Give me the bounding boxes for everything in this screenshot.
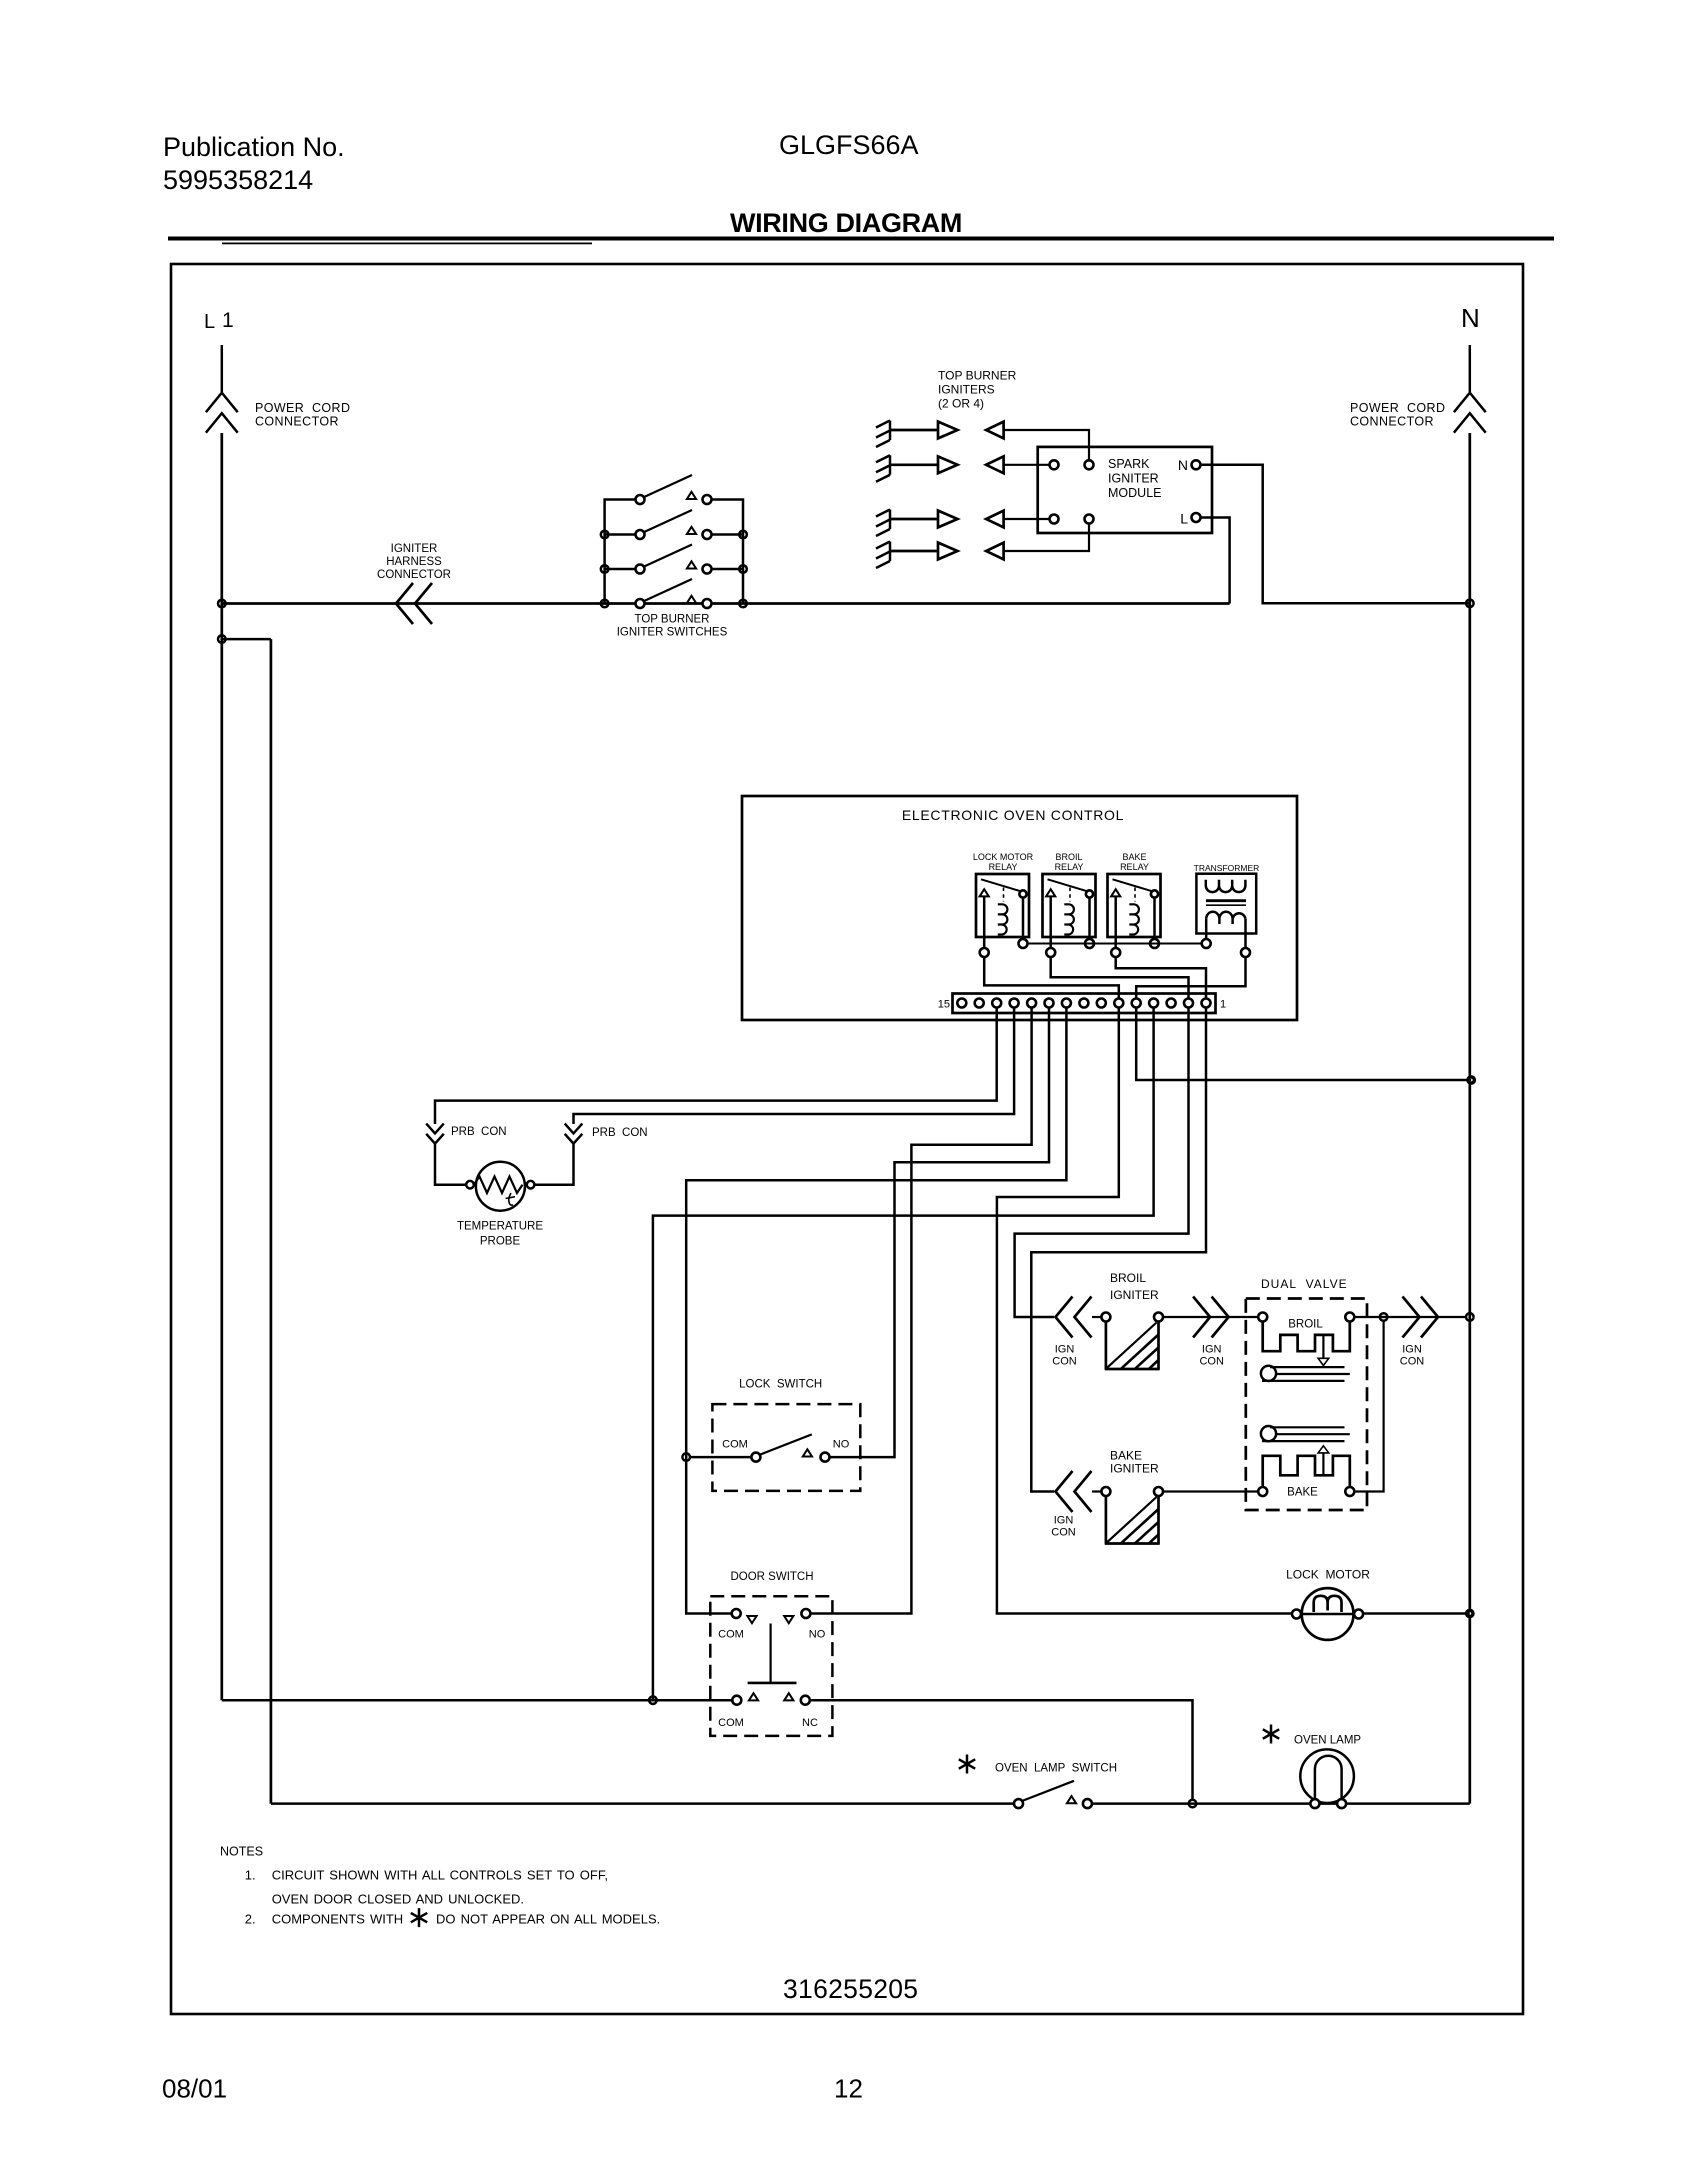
connector IGN CON bake left <box>1056 1471 1092 1512</box>
wire pin4 to door switch COM row <box>653 1008 1154 1701</box>
connector IGN CON broil mid (double chevron right) <box>1193 1297 1229 1338</box>
connector PRB CON right <box>565 1124 583 1144</box>
svg-text:CONNECTOR: CONNECTOR <box>377 569 451 581</box>
wire igniter row4 to module <box>1004 524 1089 552</box>
svg-text:COM: COM <box>718 1629 744 1641</box>
wire broil valve to IGN CON <box>1354 1316 1466 1318</box>
svg-text:PROBE: PROBE <box>480 1236 521 1248</box>
wire N vertical rail <box>1468 433 1471 1804</box>
wire lamp row right <box>1092 1802 1470 1805</box>
svg-text:NOTES: NOTES <box>220 1845 263 1859</box>
spark igniter module U1 box <box>1038 447 1212 533</box>
wire switch bank left bus <box>605 500 640 604</box>
temperature probe RT1 <box>466 1162 534 1211</box>
terminal strip P1 <box>938 994 1226 1014</box>
svg-text:CON: CON <box>1400 1356 1425 1368</box>
diagram border frame <box>171 264 1523 2014</box>
svg-text:COMPONENTS WITH: COMPONENTS WITH <box>272 1912 404 1927</box>
svg-text:OVEN DOOR CLOSED AND UNLOCKED.: OVEN DOOR CLOSED AND UNLOCKED. <box>272 1891 524 1906</box>
junction bus right row3 <box>739 565 747 573</box>
asterisk (oven lamp) <box>1263 1725 1279 1744</box>
valve solenoid BROIL <box>1258 1313 1354 1382</box>
wire transformer to pin 5 <box>1136 957 1245 998</box>
asterisk (note 2) <box>411 1908 427 1927</box>
svg-text:(2 OR 4): (2 OR 4) <box>938 397 984 411</box>
junction L1 / lamp branch <box>218 635 226 643</box>
svg-text:RELAY: RELAY <box>989 862 1018 872</box>
bake valve winding <box>1263 1456 1350 1487</box>
connector IGN CON broil left <box>1056 1297 1092 1338</box>
wire relay contact bus <box>1028 943 1202 945</box>
module terminal pins left <box>1050 460 1059 469</box>
transformer secondary coil <box>1206 912 1245 924</box>
wire lock motor to N rail <box>1363 1612 1470 1615</box>
module terminal pin N <box>1192 460 1201 469</box>
igniter electrode row3 <box>876 510 1049 537</box>
wire pin6 to lock motor <box>997 1008 1292 1614</box>
door switch S6 box (dashed) <box>710 1596 832 1736</box>
junction bus left row3 <box>601 565 609 573</box>
svg-text:1: 1 <box>1220 999 1226 1011</box>
wire probe left lead <box>435 1144 466 1185</box>
wire L1 vertical rail <box>220 433 223 1700</box>
switch S2 top burner igniter switch row2 <box>636 510 712 539</box>
bake igniter E2 (hot surface igniter) <box>1101 1487 1163 1544</box>
igniter electrode row1 <box>876 421 1089 461</box>
svg-text:NO: NO <box>833 1439 850 1451</box>
oven lamp switch S7 <box>1014 1781 1092 1808</box>
terminal circles 15..1 <box>957 999 966 1008</box>
svg-text:BROIL: BROIL <box>1110 1271 1146 1285</box>
asterisk (lamp switch) <box>959 1755 975 1774</box>
title rule artifact <box>222 243 592 245</box>
svg-text:DO NOT APPEAR ON ALL MODELS.: DO NOT APPEAR ON ALL MODELS. <box>436 1912 660 1927</box>
junction pin4 wire / COM row <box>649 1696 657 1704</box>
junction lock switch COM branch <box>682 1453 690 1461</box>
wire door switch NC to lamp row <box>810 1700 1193 1799</box>
svg-text:CON: CON <box>1052 1356 1077 1368</box>
dual valve box (dashed) <box>1246 1299 1367 1511</box>
junction bus left row2 <box>601 531 609 539</box>
wire pin12 to probe connector right <box>574 1008 1015 1125</box>
svg-text:L: L <box>204 311 215 333</box>
power cord connector N (double chevron) <box>1454 393 1486 433</box>
wire lock switch COM lead <box>690 1456 751 1459</box>
wire pin10 to lock switch NO <box>830 1008 1050 1458</box>
svg-text:RELAY: RELAY <box>1120 862 1149 872</box>
svg-text:IGN: IGN <box>1202 1344 1222 1356</box>
svg-text:NO: NO <box>809 1629 826 1641</box>
svg-text:BAKE: BAKE <box>1122 852 1146 862</box>
junction bus left row4 <box>601 600 609 608</box>
junction NC wire / lamp row <box>1189 1800 1197 1808</box>
svg-text:BROIL: BROIL <box>1055 852 1082 862</box>
wire row2 stubs <box>605 533 636 536</box>
svg-text:BROIL: BROIL <box>1288 1319 1323 1331</box>
wire igniter row1 to module <box>1004 430 1089 460</box>
wire pin13 to probe connector left <box>435 1008 997 1125</box>
valve solenoid BAKE <box>1258 1426 1354 1499</box>
junction N / EOC pin 5 wire <box>1467 1076 1476 1085</box>
door switch actuator <box>769 1624 771 1683</box>
switch S4 top burner igniter switch row4 <box>636 579 712 608</box>
wire bake igniter to valve <box>1163 1490 1258 1492</box>
svg-text:LOCK MOTOR: LOCK MOTOR <box>1286 1568 1370 1582</box>
svg-text:CONNECTOR: CONNECTOR <box>255 415 339 429</box>
junction bus right row2 <box>739 531 747 539</box>
svg-text:LOCK SWITCH: LOCK SWITCH <box>739 1379 822 1391</box>
wire broil relay coil to pin 2 <box>1051 957 1189 998</box>
door switch lower pole <box>732 1693 810 1704</box>
svg-text:IGNITER: IGNITER <box>1108 472 1159 486</box>
wire L terminal riser <box>1201 518 1230 604</box>
wire valve right pins vertical <box>1354 1321 1383 1492</box>
connector PRB CON left <box>426 1124 444 1144</box>
junction N / igniter connector wire <box>1466 1313 1474 1321</box>
wire igniter row2 to module <box>1004 464 1049 466</box>
svg-text:12: 12 <box>834 2074 863 2104</box>
svg-text:COM: COM <box>718 1717 744 1729</box>
svg-text:RELAY: RELAY <box>1055 862 1084 872</box>
svg-text:CON: CON <box>1199 1356 1224 1368</box>
bake valve arrow <box>1322 1453 1324 1475</box>
junction L1 / main wire <box>218 600 226 608</box>
lock motor M1 <box>1292 1588 1363 1640</box>
svg-text:TRANSFORMER: TRANSFORMER <box>1194 863 1260 873</box>
transformer T1 <box>1194 863 1260 957</box>
relay K1 lock motor relay <box>973 852 1034 957</box>
wire L1 lead above connector <box>221 345 224 392</box>
wire bake igniter left stub <box>1092 1490 1101 1492</box>
svg-text:316255205: 316255205 <box>783 1974 918 2004</box>
wire lamp branch horizontal <box>222 638 271 641</box>
switch S3 top burner igniter switch row3 <box>636 545 712 574</box>
probe resistor zigzag <box>474 1177 523 1194</box>
transformer core <box>1206 899 1246 902</box>
wire bake relay coil to pin 1 <box>1116 957 1206 998</box>
svg-text:BAKE: BAKE <box>1110 1449 1142 1463</box>
igniter harness connector (double chevron left) <box>396 583 432 624</box>
svg-text:DUAL VALVE: DUAL VALVE <box>1261 1277 1348 1291</box>
wire probe right lead <box>535 1144 574 1185</box>
broil valve arrow <box>1322 1335 1324 1358</box>
relay K2 broil relay <box>1043 852 1096 957</box>
wire pin9 to lock/door switch COM <box>686 1008 1066 1614</box>
wire lamp row left <box>271 1802 1014 1805</box>
wire switch bank right bus <box>711 500 743 604</box>
lock switch S5 <box>751 1434 829 1461</box>
probe t mark <box>506 1193 516 1205</box>
svg-text:IGN: IGN <box>1054 1515 1074 1527</box>
svg-text:1.: 1. <box>245 1868 256 1883</box>
switch S1 top burner igniter switch row1 <box>636 475 712 504</box>
svg-text:SPARK: SPARK <box>1108 457 1150 471</box>
wire row3 stubs <box>605 568 636 571</box>
wire pin11 to door switch NO <box>810 1008 1031 1614</box>
svg-text:DOOR SWITCH: DOOR SWITCH <box>730 1571 813 1583</box>
svg-text:IGNITER: IGNITER <box>391 543 438 555</box>
svg-text:BAKE: BAKE <box>1287 1487 1318 1499</box>
wire lamp branch vertical <box>270 639 273 1804</box>
connector IGN CON right (double chevron right) <box>1403 1297 1439 1338</box>
svg-text:1: 1 <box>222 309 234 332</box>
wire broil igniter to valve <box>1163 1316 1258 1318</box>
junction valve right pins <box>1380 1313 1388 1321</box>
svg-text:NC: NC <box>802 1717 818 1729</box>
svg-text:CONNECTOR: CONNECTOR <box>1350 415 1434 429</box>
svg-text:N: N <box>1178 457 1188 473</box>
svg-text:CON: CON <box>1051 1527 1076 1539</box>
wire N terminal to N rail <box>1201 465 1470 604</box>
svg-text:2.: 2. <box>245 1912 256 1927</box>
svg-text:TOP BURNER: TOP BURNER <box>635 614 710 626</box>
bake burner tube <box>1261 1426 1276 1441</box>
module terminal pin L <box>1192 513 1201 522</box>
wire main L1 row left segment <box>222 602 1230 605</box>
svg-text:ELECTRONIC OVEN CONTROL: ELECTRONIC OVEN CONTROL <box>902 807 1124 823</box>
svg-text:IGN: IGN <box>1402 1344 1422 1356</box>
motor m mark <box>1314 1596 1342 1612</box>
wire pin2 to broil igniter <box>1015 1008 1189 1318</box>
svg-text:CIRCUIT SHOWN WITH ALL CONTROL: CIRCUIT SHOWN WITH ALL CONTROLS SET TO O… <box>272 1868 608 1883</box>
svg-text:TEMPERATURE: TEMPERATURE <box>457 1221 543 1233</box>
svg-text:PRB CON: PRB CON <box>592 1127 648 1139</box>
svg-text:5995358214: 5995358214 <box>163 165 313 195</box>
svg-text:IGNITER: IGNITER <box>1110 1462 1159 1476</box>
igniter electrode row2 <box>876 455 1049 482</box>
wire pin1 to bake igniter <box>1031 1008 1206 1492</box>
wire igniter row3 to module <box>1004 518 1049 520</box>
title rule <box>168 237 1554 241</box>
svg-text:IGN: IGN <box>1055 1344 1075 1356</box>
svg-text:15: 15 <box>938 999 950 1011</box>
junction N / spark module wire <box>1466 600 1474 608</box>
svg-text:Publication No.: Publication No. <box>163 132 345 162</box>
door switch upper pole <box>732 1609 811 1683</box>
svg-text:TOP BURNER: TOP BURNER <box>938 369 1017 383</box>
svg-text:OVEN LAMP: OVEN LAMP <box>1294 1735 1361 1747</box>
svg-text:POWER CORD: POWER CORD <box>255 401 350 415</box>
svg-text:IGNITERS: IGNITERS <box>938 383 995 397</box>
svg-text:COM: COM <box>722 1439 748 1451</box>
svg-text:IGNITER: IGNITER <box>1110 1288 1159 1302</box>
relay K3 bake relay <box>1108 852 1161 957</box>
svg-text:MODULE: MODULE <box>1108 486 1161 500</box>
junction bus right row4 <box>739 600 747 608</box>
igniter electrode row4 <box>876 524 1089 569</box>
power cord connector L1 (double chevron) <box>206 393 238 433</box>
junction N / lock motor wire <box>1465 1609 1474 1618</box>
svg-text:WIRING DIAGRAM: WIRING DIAGRAM <box>730 208 962 238</box>
broil valve winding <box>1263 1322 1350 1352</box>
broil igniter E1 (hot surface igniter) <box>1101 1313 1163 1370</box>
wire lock relay coil to pin 6 <box>984 957 1119 998</box>
lock switch S5 box (dashed) <box>712 1404 860 1491</box>
wire pin5 to N rail <box>1136 1008 1471 1081</box>
svg-text:LOCK MOTOR: LOCK MOTOR <box>973 852 1034 862</box>
transformer leads <box>1205 919 1208 939</box>
broil burner tube <box>1261 1366 1276 1381</box>
svg-text:POWER CORD: POWER CORD <box>1350 401 1445 415</box>
svg-text:PRB CON: PRB CON <box>451 1126 507 1138</box>
svg-text:08/01: 08/01 <box>162 2074 227 2104</box>
wire N lead above connector <box>1469 345 1472 392</box>
wire L1 to door switch COM <box>222 1699 733 1702</box>
svg-text:OVEN LAMP SWITCH: OVEN LAMP SWITCH <box>995 1763 1117 1775</box>
svg-text:GLGFS66A: GLGFS66A <box>779 130 919 160</box>
svg-text:N: N <box>1461 303 1480 333</box>
svg-text:L: L <box>1180 511 1188 527</box>
svg-text:HARNESS: HARNESS <box>386 556 442 568</box>
svg-text:IGNITER SWITCHES: IGNITER SWITCHES <box>617 627 728 639</box>
wire broil igniter left stub <box>1092 1316 1101 1318</box>
transformer primary coil <box>1206 880 1246 892</box>
electronic oven control box <box>742 796 1297 1020</box>
oven lamp DS1 <box>1300 1749 1354 1808</box>
